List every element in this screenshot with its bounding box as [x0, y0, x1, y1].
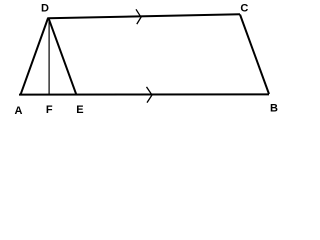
side AB (bottom base)	[19, 93, 269, 95]
side DC (top base)	[48, 14, 240, 18]
parallel mark on DC	[136, 9, 141, 24]
side AD	[21, 18, 49, 95]
parallel mark on AB	[147, 87, 153, 103]
svg-text:F: F	[46, 104, 53, 116]
svg-text:B: B	[270, 103, 278, 115]
svg-text:A: A	[15, 105, 23, 117]
svg-text:C: C	[240, 3, 248, 15]
svg-text:E: E	[76, 104, 83, 116]
altitude DF	[48, 18, 50, 95]
svg-text:D: D	[41, 3, 49, 15]
segment DE	[48, 18, 76, 95]
side CB	[240, 15, 269, 95]
